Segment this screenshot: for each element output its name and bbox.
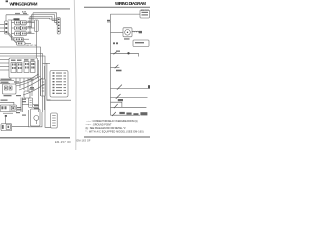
- branch y53.3: [111, 52, 139, 54]
- tall narrow box mid: [29, 98, 33, 107]
- connector block box: [50, 71, 68, 98]
- branch motor y32.3: [111, 31, 124, 33]
- nested corner wires: [33, 13, 57, 25]
- coil bumps: [132, 31, 139, 32]
- connector pins box: [1, 113, 29, 130]
- wires with labels top: [0, 80, 14, 82]
- block rows: [53, 72, 67, 94]
- black mark top-left: [6, 0, 8, 2]
- svg-text:* : WITH A/C EQUIPPED MODEL (S: * : WITH A/C EQUIPPED MODEL (SEE EM-160): [86, 131, 144, 134]
- branch y67.5: [111, 67, 120, 69]
- svg-text:(1) : SEE PAGE EM-150 FOR DETA: (1) : SEE PAGE EM-150 FOR DETAIL. *2: [86, 127, 127, 130]
- legend rows: [86, 120, 144, 134]
- row wires to right box: [27, 22, 35, 24]
- relay label: [14, 18, 20, 20]
- stub wires from edge: [0, 60, 45, 113]
- top feed wire: [111, 13, 141, 15]
- main bus: [110, 14, 112, 115]
- box B1: [3, 84, 17, 94]
- svg-text:WIRING DIAGRAM: WIRING DIAGRAM: [10, 2, 38, 7]
- mid wires: [0, 47, 71, 127]
- right bottom rule: [84, 136, 150, 138]
- branch y115.2: [111, 114, 140, 116]
- risers from rows: [32, 13, 34, 23]
- left bottom rule: [0, 137, 70, 139]
- branch y102.2: [111, 102, 122, 107]
- diagonal wires: [8, 33, 31, 44]
- right labels as text-blobs: [107, 12, 150, 116]
- svg-text:WIRING DIAGRAM: WIRING DIAGRAM: [115, 1, 146, 6]
- big component box: [9, 58, 38, 78]
- row 1: [15, 21, 21, 25]
- svg-text:EM-163: EM-163: [141, 10, 149, 12]
- fuse strip box: [0, 105, 16, 112]
- vertical from right box down: [35, 32, 37, 59]
- branch y88.6: [111, 88, 151, 90]
- labels above inner boxes: [11, 59, 35, 61]
- svg-text:EM-163 OF: EM-163 OF: [77, 139, 91, 143]
- bottom boxes of top diagram: [14, 38, 25, 46]
- top diagram wires: [0, 13, 60, 40]
- branch y97.6: [111, 97, 148, 99]
- connecting horizontals: [22, 105, 39, 108]
- inner connector boxes: [11, 63, 16, 73]
- left column wire: [12, 20, 15, 40]
- bus tick: [107, 21, 111, 23]
- branch y107.3: [111, 106, 147, 108]
- right tall box: [35, 20, 39, 32]
- terminal strip: [57, 18, 60, 35]
- left connector tall box: [5, 21, 9, 34]
- wire feed: [6, 14, 29, 16]
- tall right box: [51, 113, 58, 128]
- box B3: [24, 91, 30, 98]
- page divider: [74, 0, 76, 150]
- left title rule: [0, 8, 70, 10]
- svg-text:EM-257 OF: EM-257 OF: [55, 140, 71, 144]
- component C1 circle: [29, 109, 43, 127]
- verticals below box: [15, 78, 17, 84]
- relay rows: [15, 21, 27, 36]
- stand-alone box y40-46.5: [133, 40, 149, 47]
- right title rule: [84, 6, 150, 8]
- bus cluster verticals: [38, 60, 40, 112]
- row 3: [15, 32, 21, 36]
- row 2: [15, 26, 21, 30]
- arcs: [15, 74, 39, 84]
- wire to fuse strip: [0, 98, 22, 113]
- top-right box: [140, 10, 150, 18]
- text rows left: [1, 79, 51, 116]
